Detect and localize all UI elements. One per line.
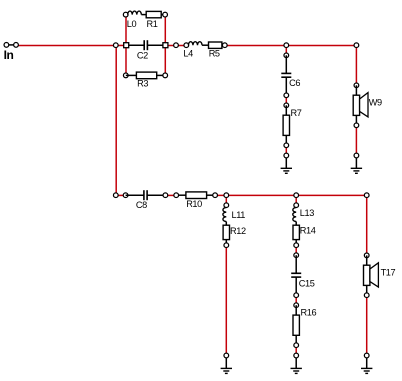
capacitor C6 <box>281 53 300 98</box>
node: L11 branch junction <box>224 193 229 198</box>
svg-text:C6: C6 <box>289 78 300 88</box>
wire: junction down to L13 pin <box>295 195 297 205</box>
resistor R3 <box>123 72 167 89</box>
svg-text:R7: R7 <box>291 108 302 118</box>
wire: input to first junction <box>16 44 116 46</box>
svg-text:C15: C15 <box>299 279 315 289</box>
inductor L13 with series resistor R14 <box>293 203 316 248</box>
svg-text:R16: R16 <box>301 308 317 318</box>
speaker W9 (woofer) <box>353 83 382 128</box>
inductor L4 with series resistor R5 <box>183 42 227 59</box>
wire: R5 to woofer branch <box>225 44 357 46</box>
svg-text:W9: W9 <box>369 98 382 108</box>
svg-text:R5: R5 <box>209 49 220 59</box>
wire: node down to W9 top pin <box>355 45 357 85</box>
wire: row2 node down to T17 top pin <box>366 195 368 255</box>
ground (below R7) <box>281 153 292 173</box>
node: connector between C8 and R10 <box>174 193 179 198</box>
svg-text:T17: T17 <box>381 268 396 278</box>
wire: C2 right square to L4 pin <box>165 44 186 46</box>
wire: R14 bottom to C15 top <box>295 245 297 255</box>
ground (below W9) <box>351 153 362 173</box>
svg-text:R12: R12 <box>230 226 246 236</box>
node: main line junction <box>113 43 118 48</box>
capacitor C2 <box>126 40 165 60</box>
wire: C6 bottom to R7 top <box>285 95 287 105</box>
svg-text:C2: C2 <box>137 51 148 61</box>
node: C6 branch junction <box>284 43 289 48</box>
node: W9 branch junction <box>354 43 359 48</box>
wire: C15 bottom to R16 top <box>295 295 297 305</box>
speaker T17 (tweeter) <box>364 253 396 298</box>
resistor R10 <box>176 192 217 209</box>
wire: left vertical of parallel block <box>125 15 127 76</box>
svg-text:L13: L13 <box>300 208 314 218</box>
node: connector between C2 and L4 <box>174 43 179 48</box>
wire: main junction down to second row <box>115 45 117 195</box>
node: L13 branch junction <box>294 193 299 198</box>
node: row2 left junction <box>113 193 118 198</box>
node: T17 branch junction <box>364 193 369 198</box>
wire: R7 bottom to ground node <box>285 145 287 155</box>
node: square junction right of C2 <box>163 43 168 48</box>
wire: right vertical of parallel block <box>164 15 166 76</box>
wire: row2 node to C8 pin <box>116 194 126 196</box>
wire: node to C6 top pin <box>285 45 287 55</box>
wire: junction down to L11 pin <box>225 195 227 205</box>
wire: T17 bottom to ground node <box>366 295 368 355</box>
svg-text:In: In <box>4 48 14 62</box>
svg-text:L0: L0 <box>127 19 137 29</box>
wire: C8 to R10 <box>165 194 176 196</box>
svg-text:R1: R1 <box>147 19 158 29</box>
input terminal In <box>4 43 19 62</box>
ground (below R12) <box>221 353 232 373</box>
svg-text:R3: R3 <box>137 79 148 89</box>
resistor R7 <box>283 103 302 148</box>
inductor L11 with series resistor R12 <box>223 203 246 248</box>
wire: R12 bottom to ground node <box>225 245 227 355</box>
svg-text:R14: R14 <box>300 225 316 235</box>
inductor L0 with series resistor R1 <box>123 11 167 29</box>
ground (below R16) <box>291 353 302 373</box>
svg-text:L4: L4 <box>183 49 193 59</box>
svg-text:L11: L11 <box>232 210 246 220</box>
capacitor C15 <box>291 253 315 298</box>
wire: R10 to row2 right end <box>215 194 367 196</box>
resistor R16 <box>293 303 316 348</box>
wire: R16 bottom to ground node <box>295 345 297 355</box>
ground (below T17) <box>361 353 372 373</box>
svg-text:R10: R10 <box>186 199 202 209</box>
wire: W9 bottom to ground node <box>355 125 357 155</box>
svg-text:C8: C8 <box>136 200 147 210</box>
capacitor C8 <box>123 190 167 210</box>
wire: junction to C2 left square <box>116 44 126 46</box>
node: square junction left of C2 <box>124 43 129 48</box>
